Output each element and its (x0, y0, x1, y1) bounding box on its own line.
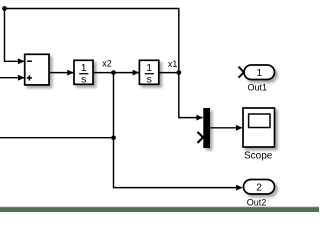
svg-text:x1: x1 (168, 59, 178, 69)
integrator block (1/s) x2 (74, 60, 93, 84)
wire: arrowhead into Out2 (236, 185, 243, 191)
svg-text:Out2: Out2 (247, 197, 267, 207)
wire: arrowhead into integrator1 (67, 70, 74, 76)
sum plus sign (27, 77, 32, 79)
Out1 unconnected input chevron (239, 67, 244, 78)
svg-text:2: 2 (256, 183, 262, 194)
wire: integrator1 output to integrator2 (93, 72, 139, 74)
svg-text:Out1: Out1 (248, 83, 268, 93)
scope block Scope (243, 108, 275, 147)
wire: arrowhead into scope (236, 125, 243, 131)
wire: sum output to integrator1 (49, 72, 74, 74)
sum block Sum (25, 54, 49, 85)
wire: arrowhead into sum plus input (18, 75, 25, 81)
outport Out1 (244, 65, 275, 80)
wire: arrowhead into integrator2 (133, 70, 140, 76)
svg-text:s: s (81, 73, 86, 85)
node: lower junction (111, 135, 116, 140)
outport Out2 (244, 180, 275, 195)
svg-text:s: s (147, 73, 152, 85)
node: x2 junction (111, 70, 116, 75)
integrator block (1/s) x1 (139, 60, 158, 84)
wire: integrator2 output to x1 junction (159, 72, 179, 74)
svg-text:1: 1 (146, 62, 152, 74)
node: x1 junction (176, 70, 181, 75)
wire: x2 junction down to bottom corner then to Out2 (114, 73, 237, 188)
wire: left vertical down to sum minus input (5, 9, 25, 62)
node: top-left junction (2, 6, 7, 11)
mux block Mux (203, 108, 210, 148)
wire: horizontal from left edge into lower junction (0, 137, 114, 139)
scope screen (249, 114, 270, 128)
svg-text:1: 1 (81, 62, 87, 74)
sum minus sign (27, 60, 32, 62)
wire: top feedback horizontal x1 line (5, 9, 203, 118)
svg-text:Scope: Scope (244, 151, 273, 162)
mux unconnected input port 2 chevron (198, 132, 204, 143)
wire: arrowhead into mux input 1 (196, 115, 203, 121)
green footer bar (0, 206, 319, 209)
wire: arrowhead into sum minus input (18, 58, 25, 64)
svg-text:1: 1 (257, 68, 263, 79)
wire: sum plus input from left edge (0, 77, 24, 79)
svg-text:x2: x2 (102, 59, 112, 69)
wire: mux output to scope (210, 127, 237, 129)
